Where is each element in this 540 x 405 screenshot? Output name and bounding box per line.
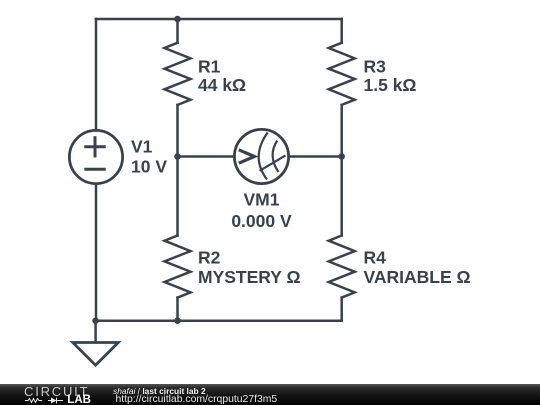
svg-text:R4: R4 — [364, 248, 387, 268]
resistor R3 — [329, 43, 355, 105]
wire voltmeter row left — [178, 155, 234, 158]
svg-text:LAB: LAB — [67, 394, 91, 405]
svg-text:R2: R2 — [198, 248, 221, 268]
node junction middle left — [174, 153, 181, 160]
wire bottom rail — [96, 319, 342, 322]
node junction middle right — [338, 153, 345, 160]
wire right rail R3 leads — [340, 19, 343, 43]
svg-text:VM1: VM1 — [244, 190, 280, 210]
wire voltmeter row right — [290, 155, 342, 158]
svg-text:VARIABLE Ω: VARIABLE Ω — [364, 267, 471, 287]
CircuitLab logo — [0, 384, 100, 405]
resistor R4 — [329, 236, 355, 298]
svg-text:R3: R3 — [364, 56, 387, 76]
svg-text:10 V: 10 V — [131, 156, 167, 176]
svg-text:MYSTERY Ω: MYSTERY Ω — [198, 267, 301, 287]
node junction top — [174, 16, 181, 23]
credit line 2 — [116, 395, 278, 405]
node junction bottom middle — [174, 317, 181, 324]
ground — [73, 321, 119, 366]
svg-text:V1: V1 — [131, 136, 153, 156]
voltage source V1 — [69, 130, 122, 183]
svg-text:44 kΩ: 44 kΩ — [198, 75, 246, 95]
resistor R1 — [165, 43, 191, 105]
svg-text:0.000 V: 0.000 V — [231, 211, 292, 231]
wire right rail R4 leads — [340, 156, 343, 235]
svg-text:R1: R1 — [198, 56, 221, 76]
wire top rail — [96, 18, 342, 21]
wire middle column R2 leads — [176, 157, 179, 236]
wire middle column R1 leads — [176, 19, 179, 43]
resistor R2 — [165, 236, 191, 298]
node junction bottom left — [92, 317, 99, 324]
wire left rail lower — [95, 184, 98, 321]
svg-text:1.5 kΩ: 1.5 kΩ — [364, 75, 417, 95]
footer bar — [0, 384, 540, 405]
credit line 1 — [113, 387, 206, 395]
wire left rail upper — [95, 19, 98, 130]
voltmeter VM1 — [234, 129, 288, 183]
